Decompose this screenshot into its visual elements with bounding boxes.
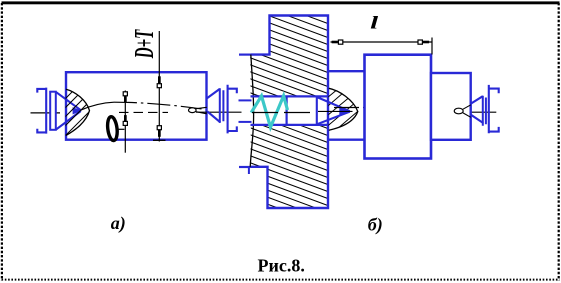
svg-text:D+T: D+T	[128, 29, 159, 59]
svg-text:Рис.8.: Рис.8.	[258, 256, 305, 276]
svg-text:б): б)	[368, 215, 383, 236]
svg-text:l: l	[370, 14, 378, 33]
svg-text:а): а)	[111, 213, 126, 234]
